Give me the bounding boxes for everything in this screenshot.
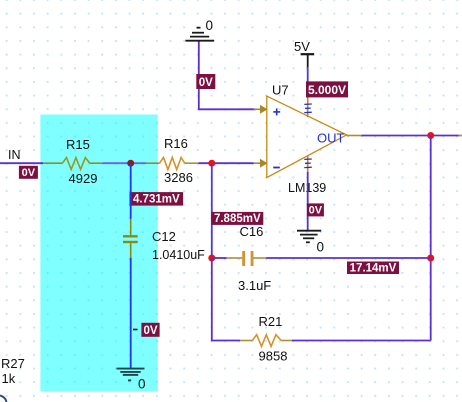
svg-text:C16: C16 bbox=[240, 224, 264, 239]
resistor R16 bbox=[146, 136, 198, 185]
wire R15 to node A bbox=[102, 162, 130, 164]
svg-text:IN: IN bbox=[8, 148, 21, 162]
svg-text:R16: R16 bbox=[164, 136, 188, 151]
resistor R15 bbox=[43, 137, 102, 186]
wire 5V to V+ pin bbox=[307, 67, 309, 82]
svg-text:0: 0 bbox=[317, 240, 325, 255]
probe 5.000V bbox=[306, 81, 348, 97]
wire op-amp output bbox=[347, 135, 462, 137]
corner arc decoration bbox=[0, 396, 7, 402]
probe 0V on V- wire bbox=[307, 203, 324, 216]
svg-text:1.0410uF: 1.0410uF bbox=[152, 248, 205, 262]
svg-text:9858: 9858 bbox=[259, 349, 288, 364]
junction output node bbox=[427, 132, 434, 139]
svg-text:0V: 0V bbox=[309, 205, 323, 217]
wire node B down to C16 node bbox=[211, 163, 213, 258]
svg-text:0V: 0V bbox=[22, 167, 36, 179]
svg-text:R21: R21 bbox=[259, 314, 283, 329]
wire node A to R16 bbox=[131, 162, 146, 164]
resistor R27 label bbox=[1, 356, 25, 386]
svg-text:5.000V: 5.000V bbox=[308, 83, 346, 97]
wire R21 to right vertical bbox=[292, 340, 431, 342]
probe 17.14mV bbox=[347, 262, 399, 275]
svg-text:0V: 0V bbox=[143, 325, 157, 337]
wire node C down to R21 row bbox=[212, 258, 241, 341]
ground 0 bottom bbox=[117, 369, 146, 392]
svg-text:4929: 4929 bbox=[69, 171, 98, 186]
svg-text:3.1uF: 3.1uF bbox=[238, 278, 271, 293]
wire R16 to op-amp minus input bbox=[198, 162, 253, 164]
capacitor C16 bbox=[212, 224, 272, 293]
wire right vertical bbox=[430, 136, 432, 341]
pin plus marker bbox=[273, 108, 280, 115]
wire C12 to ground bbox=[130, 258, 132, 369]
svg-text:C12: C12 bbox=[152, 229, 176, 244]
probe 0V on plus-input wire bbox=[196, 74, 215, 89]
svg-text:4.731mV: 4.731mV bbox=[133, 194, 180, 206]
svg-text:0: 0 bbox=[138, 377, 146, 392]
svg-text:1k: 1k bbox=[2, 371, 16, 386]
junction node C bbox=[208, 255, 215, 262]
svg-text:17.14mV: 17.14mV bbox=[350, 263, 397, 275]
power 5V symbol bbox=[294, 39, 314, 67]
wire C16 to feedback node bbox=[266, 257, 431, 259]
wire node A down to C12 bbox=[130, 163, 132, 219]
probe 7.885mV bbox=[211, 212, 263, 225]
ground 0 below op-amp bbox=[297, 231, 324, 255]
svg-text:0: 0 bbox=[206, 18, 214, 33]
probe 4.731mV bbox=[130, 192, 184, 206]
svg-text:0V: 0V bbox=[199, 77, 213, 89]
svg-text:U7: U7 bbox=[272, 83, 289, 98]
junction feedback node bbox=[427, 255, 434, 262]
pin arrow plus input bbox=[254, 105, 268, 113]
pin minus marker bbox=[273, 167, 280, 169]
svg-text:OUT: OUT bbox=[317, 131, 345, 146]
pin V+ of U7 bbox=[304, 97, 312, 118]
junction node B bbox=[208, 160, 215, 167]
capacitor C12 bbox=[123, 219, 205, 262]
selection highlight rectangle bbox=[40, 115, 157, 392]
op-amp U7 bbox=[267, 83, 347, 196]
pin V- of U7 bbox=[304, 156, 312, 172]
wire IN to R15 bbox=[0, 162, 43, 164]
wire V- pin to ground bbox=[307, 172, 309, 231]
svg-text:R27: R27 bbox=[1, 356, 25, 371]
svg-text:3286: 3286 bbox=[164, 170, 193, 185]
ground 0 top-left bbox=[185, 18, 214, 41]
svg-text:5V: 5V bbox=[294, 39, 310, 54]
wire ground to op-amp plus input bbox=[199, 42, 256, 110]
pin arrow minus input bbox=[254, 159, 268, 167]
probe 0V at IN bbox=[19, 166, 38, 179]
junction node A bbox=[127, 160, 134, 167]
probe 0V near bottom ground bbox=[133, 323, 160, 337]
resistor R21 bbox=[240, 314, 291, 364]
svg-text:R15: R15 bbox=[66, 137, 90, 152]
